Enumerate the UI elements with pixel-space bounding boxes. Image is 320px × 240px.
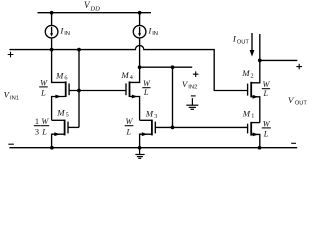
svg-text:W: W [126, 117, 134, 126]
svg-text:L: L [262, 89, 268, 98]
svg-text:5: 5 [66, 112, 69, 119]
node: rail-IIN2 [138, 11, 142, 15]
svg-text:M: M [242, 109, 251, 119]
current source IIN right [133, 25, 146, 38]
svg-text:IN: IN [64, 31, 70, 37]
svg-text:1: 1 [251, 112, 254, 119]
minus terminal VOUT [291, 142, 296, 144]
minus terminal VIN1 [8, 143, 14, 145]
label W/L of M6 [39, 78, 48, 97]
transistor M2 [248, 60, 260, 122]
wire: left trunk rail to current source [51, 13, 53, 26]
wire: mid trunk current source down to VIN2 node [139, 38, 141, 67]
svg-text:2: 2 [251, 73, 254, 80]
svg-text:6: 6 [64, 74, 67, 81]
node: VOUT-M2 drain [258, 59, 262, 63]
wire: gate line M6 to M4 [69, 90, 126, 92]
minus terminal VIN2 [191, 95, 196, 97]
wire: bottom rail [9, 147, 297, 149]
svg-text:L: L [263, 129, 269, 138]
wire: M2 drain stub up (IOUT terminal) [259, 34, 261, 60]
node: M5 source-bottom rail [50, 146, 54, 150]
svg-text:W: W [41, 117, 49, 126]
svg-text:IN1: IN1 [10, 95, 19, 101]
svg-text:L: L [125, 127, 131, 136]
label W/L of M1 [262, 119, 271, 138]
svg-text:L: L [41, 127, 47, 136]
wire: VOUT line [260, 59, 298, 61]
svg-text:W: W [143, 79, 151, 88]
svg-text:M: M [56, 107, 65, 117]
label W/L of M4 [142, 79, 151, 97]
svg-text:1: 1 [35, 117, 39, 126]
svg-text:DD: DD [89, 5, 100, 12]
transistor M5 [52, 120, 79, 148]
plus terminal VIN2 [193, 71, 199, 77]
node: VIN2 wire-trunk172 [171, 65, 175, 69]
svg-text:4: 4 [130, 74, 133, 81]
node: gate line M3M1-trunk172 [171, 126, 175, 130]
svg-text:M: M [145, 108, 154, 118]
node: M1 source-bottom rail [258, 146, 262, 150]
svg-text:3: 3 [154, 113, 157, 120]
wire: gate line M3 to M1 [155, 126, 247, 128]
svg-text:IN: IN [152, 31, 158, 37]
svg-text:M: M [55, 70, 64, 80]
svg-text:L: L [40, 89, 46, 98]
node: IIN1-VIN1 wire [50, 48, 54, 52]
label 1/3 W/L of M5 [34, 117, 50, 136]
IOUT arrow [250, 33, 255, 57]
svg-text:M: M [241, 68, 250, 78]
node: VIN2 wire-M4 drain [138, 65, 142, 69]
node: rail-IIN1 [50, 11, 54, 15]
plus terminal VOUT [296, 64, 302, 70]
node: gate line M6M4-trunk79 [77, 89, 81, 93]
label W/L of M3 [125, 117, 134, 136]
wire: VIN1 line with crossover hop, corner to M2 gate [9, 45, 247, 90]
ground (VIN2) [186, 98, 198, 109]
transistor M6 [52, 50, 70, 121]
svg-text:OUT: OUT [237, 39, 250, 45]
wire: VIN2 line [140, 66, 193, 68]
svg-text:M: M [120, 70, 129, 80]
plus terminal VIN1 [8, 52, 14, 58]
wire: mid-left trunk x=79 [78, 50, 80, 128]
svg-text:W: W [40, 78, 48, 87]
ground (bottom rail) [135, 148, 144, 159]
wire: left trunk current source to VIN1 line [51, 38, 53, 50]
wire: mid trunk rail to current source [139, 13, 141, 26]
wire: mid-right trunk x=172.5 [172, 67, 174, 127]
transistor M1 [248, 122, 260, 148]
current source IIN left [45, 25, 58, 38]
svg-text:3: 3 [35, 127, 39, 136]
transistor M3 [140, 120, 156, 148]
svg-text:L: L [143, 88, 149, 97]
svg-text:W: W [263, 80, 271, 89]
label W/L of M2 [262, 80, 271, 98]
svg-text:OUT: OUT [295, 100, 308, 106]
svg-text:W: W [263, 119, 271, 128]
node: VIN1 wire-trunk79 [77, 48, 81, 52]
svg-text:IN2: IN2 [188, 85, 197, 91]
wire: VDD top rail [38, 12, 152, 14]
transistor M4 [126, 67, 140, 120]
node: M3 source-bottom rail [138, 146, 142, 150]
